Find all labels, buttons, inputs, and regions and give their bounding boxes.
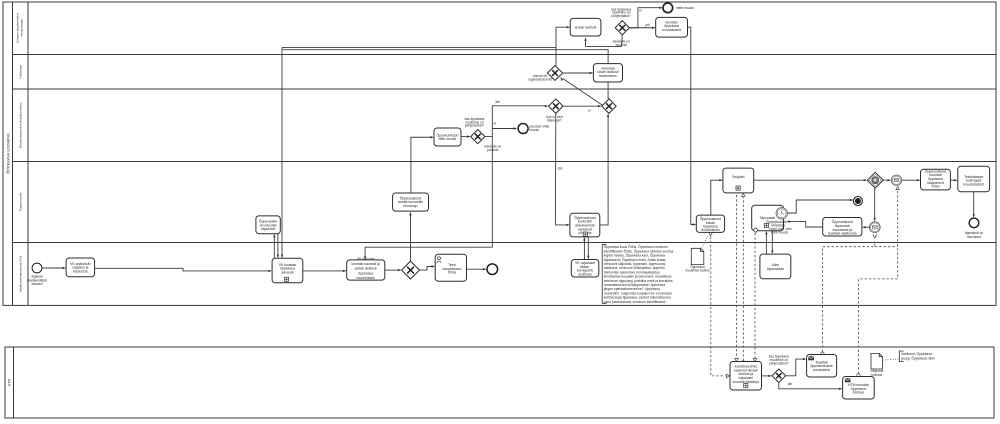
task HTM muudab oppekava EHISes (send): [843, 377, 875, 400]
task koordineerimisosakond hindab taotlust: [730, 362, 762, 391]
svg-text:mitte muuta: mitte muuta: [676, 6, 694, 10]
open arrow marker below esitab task: [709, 232, 713, 235]
pool OPPEKAVA LOOMINE frame: [3, 2, 996, 305]
end event after Teeb muudatused: [487, 264, 498, 275]
gateway 5 lane5: [402, 261, 420, 279]
wire x492 up corner to gateway2 (Jah): [492, 100, 548, 108]
svg-text:põhjendatud?: põhjendatud?: [769, 362, 789, 366]
svg-text:ÕISis: ÕISis: [931, 184, 940, 189]
wire gateway pool2 to Teavitab oppeasutust: [786, 358, 807, 376]
annotation bracket oppekava andmed: [602, 244, 673, 304]
wire message catch to Oppeosakond muudab: [902, 179, 921, 181]
wire gw2 ei to gw3: [563, 105, 602, 112]
message flow Tapsustab to HTM task: [753, 233, 757, 362]
wire kontrollib down to VK vajadusel: [587, 237, 589, 260]
svg-text:EHISes: EHISes: [853, 391, 865, 395]
task Oppeosakond muudab oppekava uldandmed OISis: [921, 168, 951, 190]
task Oppeosakond esitab oppekava muutmiseks: [696, 215, 724, 232]
wire feedback gateway1 down-left up into arutab (kavandis on puudusi): [584, 35, 622, 47]
task VK kaasab kinnitab kavandi ja esitab taotluse oppekava muutmiseks: [347, 257, 385, 280]
wire event gateway down to message event: [874, 188, 876, 222]
task Oppeosakond kontrollib dokumentide vastavust nouetele: [570, 213, 600, 237]
task VK koostab oppekava kavandi: [272, 258, 303, 283]
wire gateway1 right and vertical x492: [485, 106, 492, 137]
wire esitab task up to Selgitab: [711, 179, 723, 215]
message flow esitab task to koordineerimisosakond: [711, 236, 730, 378]
task Oppevaldkond noustab vajadusel: [256, 216, 280, 234]
svg-text:esitab taotluse: esitab taotluse: [355, 267, 377, 271]
svg-text:muutmise taotlus: muutmise taotlus: [685, 268, 709, 272]
label kas on veel taiendusi: [546, 115, 563, 122]
svg-text:muudatused: muudatused: [662, 28, 681, 32]
task Teavitatakse tudengeid muudatustest: [958, 166, 990, 191]
svg-text:otsustuskogu: otsustuskogu: [20, 19, 24, 38]
end event mitte muuta: [663, 3, 694, 13]
task Oppeosakond tapsustab muudatust ja teavitab valdkonda: [823, 218, 862, 237]
task VK vajadusel taitab korrigeerib andmeid: [571, 260, 599, 278]
message event above Oppeosakond tapsustab: [869, 222, 880, 233]
wire start to VK analuusib: [42, 267, 66, 269]
wire to Teavitatakse: [950, 179, 957, 181]
svg-text:koostab käskkirja: koostab käskkirja: [733, 380, 759, 384]
message catch event right: [891, 175, 901, 185]
svg-text:Valdkond/teaduskond (VK): Valdkond/teaduskond (VK): [19, 256, 23, 293]
svg-text:Õppekomisjon/nõukogu/prorektor: Õppekomisjon/nõukogu/prorektor: [18, 102, 23, 148]
boundary diamond marker on Tapsustab corner: [753, 228, 758, 233]
svg-text:puudustest: puudustest: [813, 368, 830, 372]
task rektoraat votab taotluse teadmiseks: [593, 64, 622, 82]
wire vertical x556 gw2 top to arutab left: [556, 26, 570, 66]
svg-text:ÕISis: ÕISis: [448, 270, 457, 275]
wire gateway5 up to hinnangu task: [409, 212, 411, 261]
svg-text:VK kaasab/: VK kaasab/: [357, 257, 375, 261]
end event oppekava on muudetud: [965, 218, 983, 239]
svg-text:muutmiseks: muutmiseks: [701, 228, 720, 232]
wire horizontal y47.4 rektoraat-gw to VK koostab: [282, 46, 556, 48]
wire horizontal y49.7 to rektoraat task top: [283, 50, 608, 64]
svg-text:grupp, Õppekava rühm: grupp, Õppekava rühm: [901, 355, 935, 360]
label otsus organisatsioonist: [528, 74, 552, 81]
svg-text:kinnitus: kinnitus: [871, 373, 882, 377]
svg-text:kavandi: kavandi: [282, 271, 294, 275]
svg-text:muudatustest: muudatustest: [963, 182, 984, 186]
svg-text:Jah: Jah: [495, 100, 500, 104]
lane divider 2/3: [13, 88, 997, 90]
svg-text:ei: ei: [588, 108, 591, 112]
gateway rektoraat otsus (lane2): [547, 66, 562, 81]
svg-text:jah: jah: [644, 23, 649, 27]
wire ei branch to end event puudusi mitte muuta: [492, 121, 517, 129]
svg-text:ei: ei: [639, 9, 642, 13]
wire VK vajadusel up to kontrollib: [583, 237, 585, 260]
svg-text:organisatsioonist: organisatsioonist: [528, 78, 552, 82]
task Oppekomisjon teeb otsuse: [434, 128, 461, 146]
message flow dashed segment crossing: [875, 246, 898, 248]
gateway kas oppekava muutmine on pohjendatud (pool2): [772, 369, 786, 383]
label kavandis on puudusi (lane3): [484, 145, 501, 152]
task Tapsustab oppejoudude nimekirja: [752, 205, 792, 234]
wire Tapsustab down to Alles tapsustada: [771, 231, 773, 254]
svg-text:teadmiseks: teadmiseks: [599, 74, 617, 78]
wire gateway up to end event (ei): [629, 7, 663, 28]
annotation valdkond oppekava grupp ruhm: [899, 351, 935, 362]
wire VK kaasab to gateway5: [385, 269, 402, 271]
message flow HTM muudab to message catch event: [857, 187, 900, 377]
wire koordineerimisosakond to gateway pool2: [762, 375, 773, 377]
task kinnitab oppekava muudatused: [656, 17, 688, 37]
wire Alles tapsustada up to Tapsustab: [765, 231, 767, 254]
event-based gateway: [867, 172, 883, 188]
svg-text:kinnitab kavandi ja: kinnitab kavandi ja: [352, 262, 380, 266]
label kas oppekava muutmine on pohjendatud (pool2): [769, 355, 789, 366]
start event algavad akadeemilised otsused: [27, 263, 48, 286]
svg-text:Selgitab: Selgitab: [732, 175, 745, 179]
svg-text:teeb otsuse: teeb otsuse: [439, 137, 457, 141]
svg-text:põhjendatud?: põhjendatud?: [465, 124, 485, 128]
wire VK koostab up to noustab: [273, 234, 275, 259]
svg-text:otsused: otsused: [31, 282, 42, 286]
svg-text:täiendusi?: täiendusi?: [547, 118, 562, 122]
wire rektoraat task bottom to gateway3 top: [607, 82, 609, 99]
wire VK koostab to VK kaasab: [303, 270, 347, 272]
svg-text:vajadusel: vajadusel: [261, 227, 276, 231]
svg-text:teavitab valdkonda: teavitab valdkonda: [828, 232, 857, 236]
svg-text:ressursse: ressursse: [73, 270, 88, 274]
svg-text:puudusi: puudusi: [487, 148, 498, 152]
svg-text:Rektoraat: Rektoraat: [19, 65, 23, 79]
message flow Teavitab oppeasutust to message event: [821, 241, 875, 355]
svg-text:õppekava: õppekava: [358, 271, 373, 275]
wire event gateway to message catch right: [883, 179, 891, 181]
svg-text:muutmiseks: muutmiseks: [357, 276, 376, 280]
gateway kas oppekava muutmine on pohjendatud (lane1): [615, 21, 629, 35]
task Teavitab oppeasutusele puudustest (send): [807, 355, 837, 378]
gateway kas on veel taiendusi: [549, 99, 564, 114]
wire gateway pool2 jah to HTM muudab: [779, 382, 843, 390]
wire Teavitatakse down to end event: [973, 192, 975, 218]
svg-text:põhjendatud?: põhjendatud?: [612, 14, 632, 18]
svg-text:Tugiteenused: Tugiteenused: [19, 192, 23, 211]
wire diagonal gateway3 to gateway rektoraat: [560, 77, 602, 106]
svg-text:muudetud: muudetud: [967, 235, 981, 239]
svg-text:arutab taotlust: arutab taotlust: [575, 26, 597, 30]
wire gateway1 down x492 to VK kaasab top (kavandis on puudusi): [364, 137, 492, 260]
message flow HTM task to Selgitab: [742, 193, 746, 364]
task VK analuusib vajadusi ja ressursse: [66, 258, 95, 277]
association document to annotation pool2: [883, 359, 899, 360]
svg-text:andmeid: andmeid: [578, 272, 591, 276]
wire Selgitab to event gateway: [754, 179, 868, 181]
document Oppekava muutmise taotlus: [685, 248, 709, 272]
wire timer to terminate end: [788, 199, 854, 213]
label kas oppekava muutmine on pohjendatud (lane3): [465, 117, 485, 128]
boundary timer event on Tapsustab: [776, 208, 787, 219]
svg-text:puudusi: puudusi: [616, 43, 627, 47]
document valjavote kinnitus: [870, 353, 883, 376]
terminate end event: [853, 197, 862, 206]
label kavandis on puudusi (lane1): [613, 40, 630, 47]
data association esitab task to document: [702, 236, 708, 248]
svg-text:vana (asendatava) versiooni id: vana (asendatava) versiooni identifikaat…: [604, 300, 667, 304]
wire noustab down to VK koostab: [277, 234, 279, 259]
wire message event to Oppeosakond tapsustab: [862, 226, 870, 228]
wire gateway to kinnitab (jah): [629, 23, 655, 29]
svg-text:ei: ei: [494, 121, 497, 125]
svg-text:HTM: HTM: [7, 379, 11, 387]
lane divider 4/5: [13, 242, 997, 244]
task Teeb muudatused OISis (user task): [435, 254, 466, 281]
svg-text:Jah: Jah: [557, 167, 562, 171]
lane divider 1/2: [13, 54, 997, 56]
svg-text:ÕPPEKAVA LOOMINE: ÕPPEKAVA LOOMINE: [5, 133, 10, 174]
wire hinnangu task to Oppekomisjon teeb otsuse: [411, 136, 434, 193]
lane label Korgem akadeemiline otsustuskogu: [16, 13, 24, 43]
end event puudusi mitte muuta: [518, 124, 549, 134]
svg-text:muuta: muuta: [530, 128, 539, 132]
gateway 3 lane3: [602, 99, 617, 114]
svg-text:täpsustada: täpsustada: [767, 267, 784, 271]
svg-text:hinnangu: hinnangu: [403, 204, 417, 208]
wire VK analuusib to VK koostab: [95, 268, 273, 272]
svg-text:jah: jah: [787, 382, 792, 386]
task Oppeosakond annab kavandile hinnangu: [393, 193, 429, 211]
wire long vertical x282 down to VK koostab: [281, 47, 283, 258]
wire kinnitab down to esitab task: [688, 27, 697, 226]
gateway kas oppekava muutmine on pohjendatud (lane3): [471, 130, 485, 144]
wire Oppeosakond tapsustab to Tapsustab: [786, 220, 822, 227]
pool HTM frame: [5, 347, 994, 418]
message flow Selgitab to HTM task: [735, 195, 739, 362]
wire gw2 jah down to kontrollib task: [555, 113, 570, 226]
task arutab taotlust: [570, 18, 601, 36]
label kas oppekava muutmine on pohjendatud: [611, 7, 631, 18]
lane divider 3/4: [13, 161, 997, 163]
wire gateway5 to Teeb muudatused: [420, 265, 436, 270]
task Selgitab: [723, 168, 754, 193]
wire Teeb muudatused to end event: [467, 268, 487, 270]
wire teeb otsuse to gateway1 lane3: [461, 135, 471, 137]
wire gw2 to rektoraat votab: [563, 72, 594, 74]
svg-text:infot muud): infot muud): [771, 231, 788, 235]
task Alles tapsustada: [760, 254, 791, 279]
open arrow below message event: [873, 235, 877, 238]
wire kontrollib task up into gateway3 bottom: [600, 113, 610, 224]
